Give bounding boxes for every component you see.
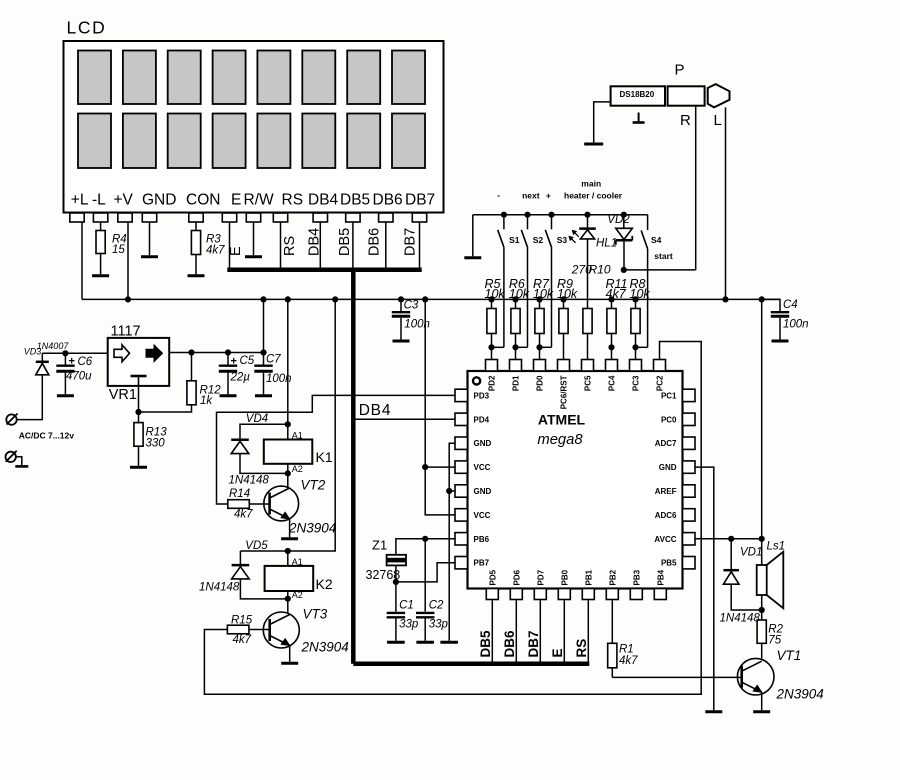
svg-text:DB4: DB4 <box>359 402 392 419</box>
svg-text:AREF: AREF <box>655 487 677 496</box>
wire R1 to VT1 base <box>612 676 741 678</box>
node C7/VCC link <box>260 349 266 355</box>
connector P box <box>668 86 705 105</box>
svg-text:PB0: PB0 <box>561 569 570 585</box>
svg-text:VD4: VD4 <box>246 413 268 425</box>
ground under C3 <box>393 340 410 343</box>
switch S1 <box>501 212 507 218</box>
LCD module outline <box>64 41 444 213</box>
svg-text:PC6/RST: PC6/RST <box>560 375 569 409</box>
MCU bottom pin stubs <box>486 589 498 600</box>
svg-text:C4: C4 <box>783 299 798 311</box>
svg-text:RS: RS <box>574 639 589 658</box>
svg-text:C1: C1 <box>399 600 414 612</box>
svg-text:DB4: DB4 <box>308 192 339 209</box>
sensor DS18B20 box <box>611 86 665 105</box>
ground MCU GND <box>440 641 458 644</box>
svg-text:4k7: 4k7 <box>206 245 225 257</box>
resistor R14 <box>228 500 250 509</box>
svg-text:Ls1: Ls1 <box>767 540 786 552</box>
MCU left pin stubs <box>455 389 468 401</box>
transistor VT2 <box>264 486 299 521</box>
wire LCD E to bus <box>229 222 231 268</box>
svg-text:GND: GND <box>142 192 176 209</box>
svg-text:1117: 1117 <box>111 324 141 340</box>
capacitor C2 <box>424 539 426 612</box>
resistor R15 <box>227 625 249 634</box>
ground VT2 emitter <box>281 537 298 540</box>
svg-text:RS: RS <box>282 236 298 256</box>
node A2 K2 <box>285 596 291 602</box>
resistor R8 <box>635 299 637 308</box>
diode VD1 <box>730 539 732 570</box>
LED HL1 arrows <box>573 231 579 237</box>
svg-text:DB6: DB6 <box>373 192 403 209</box>
svg-text:+L: +L <box>71 192 89 209</box>
svg-text:VD2: VD2 <box>607 214 630 226</box>
svg-text:VR1: VR1 <box>109 387 137 403</box>
svg-text:+: + <box>69 356 75 368</box>
VCC rail horizontal <box>82 298 780 300</box>
svg-text:GND: GND <box>474 439 492 448</box>
wire VT3 emitter to ground <box>289 646 291 662</box>
resistor R7 <box>539 299 541 308</box>
ground under C2 <box>416 641 434 644</box>
wire A1 to K2 <box>287 551 289 566</box>
node C5 top <box>225 349 231 355</box>
svg-text:10k: 10k <box>533 287 554 301</box>
svg-text:1N4148: 1N4148 <box>229 475 270 487</box>
wire bus tap DB6 <box>515 600 517 662</box>
svg-text:S4: S4 <box>651 235 662 245</box>
wire MCU GND pins to ground <box>449 443 455 641</box>
diode VD3 <box>36 361 49 364</box>
svg-text:330: 330 <box>146 438 166 450</box>
svg-text:GND: GND <box>659 463 677 472</box>
svg-text:PC1: PC1 <box>661 391 677 400</box>
diode VD5 flyback <box>239 551 241 565</box>
svg-text:R1: R1 <box>619 644 634 656</box>
VR1 input arrow (open) <box>114 345 130 362</box>
capacitor C7 <box>254 365 272 367</box>
ground under R13 <box>130 466 147 469</box>
svg-text:DB7: DB7 <box>526 630 541 657</box>
svg-text:PB5: PB5 <box>661 559 677 568</box>
svg-text:PB3: PB3 <box>633 569 642 585</box>
svg-text:C7: C7 <box>266 354 281 366</box>
svg-text:470u: 470u <box>66 371 92 383</box>
relay K1 box <box>264 440 313 464</box>
svg-text:4k7: 4k7 <box>233 634 252 646</box>
speaker Ls1 <box>761 539 763 565</box>
svg-text:DB7: DB7 <box>405 192 435 209</box>
regulator VR1 box <box>108 338 170 386</box>
case ground symbol <box>638 113 640 123</box>
wire PD3 to R14 (K1 drive) <box>217 395 456 504</box>
svg-text:10k: 10k <box>485 287 506 301</box>
svg-text:10k: 10k <box>509 287 530 301</box>
svg-text:P: P <box>675 62 685 79</box>
ground under C6 <box>57 394 74 397</box>
svg-text:next: next <box>522 191 540 201</box>
svg-text:PB1: PB1 <box>585 569 594 585</box>
svg-text:DB6: DB6 <box>366 228 382 256</box>
pin1 marker <box>473 377 480 384</box>
svg-text:R10: R10 <box>589 263 611 277</box>
wire DS18B20 to ground <box>594 102 611 143</box>
svg-text:Z1: Z1 <box>372 538 387 553</box>
svg-text:PD2: PD2 <box>488 375 497 391</box>
wire VCC rail to K1 A1 <box>287 299 289 439</box>
wire K2 A2 to VT3 collector <box>287 591 289 614</box>
svg-text:PD0: PD0 <box>536 375 545 391</box>
transistor VT1 <box>737 658 774 695</box>
svg-text:PB7: PB7 <box>474 559 490 568</box>
bus thick horizontal bottom <box>353 661 589 666</box>
wire LCD DB4 to bus <box>319 222 321 268</box>
svg-text:+V: +V <box>114 192 134 209</box>
ground under C5 <box>220 394 237 397</box>
capacitor C4 <box>762 299 780 311</box>
ground VT1 emitter <box>753 710 770 713</box>
ground DS18B20 <box>584 143 603 146</box>
svg-text:R: R <box>680 112 691 129</box>
wire DB4 tap to PD4 <box>356 418 456 420</box>
MCU top pin stubs <box>486 360 498 372</box>
ground VT3 emitter <box>281 662 298 665</box>
svg-text:75: 75 <box>768 635 781 647</box>
switch S3 <box>548 212 554 218</box>
bus thick vertical <box>351 270 356 664</box>
input terminal X1 <box>6 414 16 424</box>
svg-text:DB4: DB4 <box>307 228 323 256</box>
svg-text:PD4: PD4 <box>474 415 490 424</box>
svg-text:PB2: PB2 <box>609 569 618 585</box>
resistor R10 <box>583 309 592 334</box>
svg-text:+: + <box>546 191 551 201</box>
svg-text:1k: 1k <box>200 395 213 407</box>
node adj <box>135 409 141 415</box>
wire adj to R12 bottom <box>139 405 192 412</box>
svg-text:PD3: PD3 <box>474 391 490 400</box>
svg-text:K1: K1 <box>316 449 333 465</box>
svg-text:PD6: PD6 <box>513 569 522 585</box>
wire VCC rail to C7 <box>263 299 265 364</box>
svg-text:E: E <box>231 192 241 209</box>
plug symbol <box>708 84 730 107</box>
svg-text:DB7: DB7 <box>403 228 419 256</box>
svg-text:2N3904: 2N3904 <box>288 521 336 536</box>
svg-text:A2: A2 <box>292 464 303 474</box>
wire VR1 output <box>169 352 263 354</box>
wire bus tap DB7 <box>539 600 541 662</box>
wire LCD DB5 to bus <box>352 222 354 268</box>
wire VCC line down to AVCC <box>761 299 763 538</box>
svg-text:CON: CON <box>186 192 220 209</box>
svg-text:2N3904: 2N3904 <box>776 687 824 702</box>
capacitor C1 <box>395 582 397 612</box>
wire MCU GND right to ground <box>695 467 714 710</box>
svg-text:S3: S3 <box>557 235 568 245</box>
svg-text:AVCC: AVCC <box>654 535 676 544</box>
wire PC2 route to R15 (K2 drive) <box>204 342 701 695</box>
svg-text:PB6: PB6 <box>474 535 490 544</box>
resistor R4 <box>100 222 102 231</box>
capacitor C3 <box>400 299 402 311</box>
svg-text:4k7: 4k7 <box>606 287 627 301</box>
wire P-R down to start node <box>695 106 697 270</box>
input terminal X2 <box>6 452 16 462</box>
svg-text:AC/DC 7...12v: AC/DC 7...12v <box>19 431 75 441</box>
svg-text:10k: 10k <box>630 287 651 301</box>
resistor R13 <box>138 412 140 423</box>
crystal Z1 wiring PB6 <box>396 539 455 555</box>
capacitor C5 <box>227 353 229 365</box>
wire VT1 emitter to ground <box>761 692 763 710</box>
svg-text:PD5: PD5 <box>489 569 498 585</box>
svg-text:PD1: PD1 <box>512 375 521 391</box>
svg-text:10k: 10k <box>557 287 578 301</box>
node A1 K2 <box>285 548 291 554</box>
svg-text:VD5: VD5 <box>245 540 268 552</box>
resistor R9 <box>563 299 565 308</box>
resistor R2 <box>761 610 763 620</box>
button ground rail <box>473 214 648 216</box>
MCU right pin stubs <box>683 389 696 401</box>
junction dots below resistors <box>488 344 494 350</box>
ground left of rail <box>472 215 474 257</box>
svg-text:-: - <box>497 190 500 200</box>
wire AVCC <box>695 538 762 540</box>
ground at X2 <box>16 457 22 466</box>
svg-text:C3: C3 <box>404 299 419 311</box>
LED HL1 <box>584 212 590 218</box>
svg-text:100n: 100n <box>404 319 430 331</box>
svg-text:2N3904: 2N3904 <box>301 640 349 655</box>
wire start node to P-R <box>624 269 696 271</box>
svg-text:PC4: PC4 <box>608 375 617 391</box>
svg-text:RS: RS <box>282 192 304 209</box>
node A2 K1 <box>285 470 291 476</box>
svg-text:ADC6: ADC6 <box>655 511 677 520</box>
svg-text:22µ: 22µ <box>230 372 251 384</box>
svg-text:PC5: PC5 <box>584 375 593 391</box>
wire plug L down to VCC rail <box>725 107 727 299</box>
svg-text:4k7: 4k7 <box>234 509 253 521</box>
svg-text:PC2: PC2 <box>656 375 665 391</box>
wire VR1 adj down <box>138 386 140 412</box>
node R12 top <box>188 349 194 355</box>
svg-text:ATMEL: ATMEL <box>538 412 586 428</box>
switch S2 <box>524 212 530 218</box>
svg-text:+: + <box>231 356 237 368</box>
wire input to VD3 <box>17 376 43 420</box>
svg-text:E: E <box>228 246 244 256</box>
resistor R3 <box>195 222 197 231</box>
svg-text:HL1: HL1 <box>596 237 617 249</box>
ground under C1 <box>387 641 405 644</box>
wire LCD +L to VCC rail <box>81 222 83 299</box>
ground under C7 <box>255 394 272 397</box>
svg-text:C2: C2 <box>429 600 444 612</box>
svg-text:K2: K2 <box>316 576 333 592</box>
LCD character cells <box>78 51 111 105</box>
svg-text:DB5: DB5 <box>478 630 493 657</box>
svg-text:VCC: VCC <box>474 511 491 520</box>
node Z1 bottom <box>393 579 399 585</box>
wire VT2 emitter to ground <box>289 519 291 537</box>
ground LCD GND pin <box>149 222 151 255</box>
svg-text:PC3: PC3 <box>632 375 641 391</box>
svg-text:PB4: PB4 <box>657 569 666 585</box>
node C6 top <box>62 350 68 356</box>
wire Z1 bottom to PB7 <box>396 563 455 582</box>
svg-text:LCD: LCD <box>67 18 107 38</box>
svg-text:1N4148: 1N4148 <box>720 613 761 625</box>
svg-text:main: main <box>581 179 601 189</box>
node VD2 / start line <box>621 267 627 273</box>
svg-text:S1: S1 <box>509 235 520 245</box>
wire VCC rail to K2 A1 <box>240 299 335 551</box>
svg-text:VT2: VT2 <box>301 478 326 493</box>
ground under R4 <box>92 274 109 277</box>
transistor VT3 <box>263 612 299 648</box>
svg-text:GND: GND <box>474 487 492 496</box>
svg-text:mega8: mega8 <box>537 432 583 448</box>
svg-text:VD1: VD1 <box>740 546 762 558</box>
svg-text:DS18B20: DS18B20 <box>620 90 655 99</box>
wire K1 A2 to VT2 collector <box>287 464 289 487</box>
ground under R3 <box>188 274 205 277</box>
resistor R11 <box>611 299 613 308</box>
switch S4 <box>647 215 649 230</box>
wire LCD +V to VCC rail <box>127 222 129 299</box>
wire VD3 to VR1 input <box>42 352 107 354</box>
ground LCD R/W pin <box>253 222 255 255</box>
LCD pin stubs <box>70 213 84 222</box>
svg-text:C5: C5 <box>240 355 255 367</box>
svg-text:4k7: 4k7 <box>619 655 638 667</box>
svg-text:VT1: VT1 <box>777 648 802 663</box>
svg-text:DB5: DB5 <box>340 192 370 209</box>
svg-text:33p: 33p <box>399 618 419 630</box>
svg-text:VCC: VCC <box>474 463 491 472</box>
svg-text:heater / cooler: heater / cooler <box>564 191 623 201</box>
diode VD2 <box>621 212 627 218</box>
resistor R1 <box>611 600 613 644</box>
svg-text:DB5: DB5 <box>337 228 353 256</box>
ground right GND <box>705 710 722 713</box>
wire bus tap DB5 <box>491 600 493 662</box>
VR1 ground symbol inside <box>131 375 147 378</box>
svg-text:1N4148: 1N4148 <box>199 582 240 594</box>
VR1 output arrow (filled) <box>146 345 163 362</box>
svg-text:PD7: PD7 <box>537 569 546 585</box>
bus thick horizontal top <box>227 267 421 272</box>
wire VCC rail to MCU VCC pins <box>425 299 455 515</box>
svg-text:C6: C6 <box>78 356 93 368</box>
svg-text:15: 15 <box>112 244 125 256</box>
wire bus tap E <box>563 600 565 662</box>
wire LCD DB7 to bus <box>419 222 421 268</box>
capacitor C6 <box>64 353 66 364</box>
svg-text:S2: S2 <box>533 235 544 245</box>
svg-text:start: start <box>654 251 673 261</box>
resistor R5 <box>491 299 493 308</box>
svg-text:PC0: PC0 <box>661 415 677 424</box>
svg-text:E: E <box>550 648 565 657</box>
svg-text:A2: A2 <box>292 590 303 600</box>
wire bus tap RS <box>587 600 589 662</box>
svg-text:DB6: DB6 <box>502 630 517 657</box>
diode VD4 flyback <box>240 424 288 439</box>
resistor R12 <box>191 353 193 381</box>
svg-text:VT3: VT3 <box>303 607 328 622</box>
wire LCD RS to bus <box>280 222 282 268</box>
svg-text:R14: R14 <box>229 488 250 500</box>
svg-text:-L: -L <box>92 192 106 209</box>
node speaker bottom <box>759 607 765 613</box>
junction dots on VCC rail <box>125 296 131 302</box>
ground under C4 <box>772 340 789 343</box>
svg-text:33p: 33p <box>429 618 449 630</box>
crystal Z1 <box>387 555 406 566</box>
svg-text:100n: 100n <box>783 319 809 331</box>
svg-text:1N4007: 1N4007 <box>37 341 70 351</box>
wire LCD DB6 to bus <box>385 222 387 268</box>
svg-text:R15: R15 <box>231 615 253 627</box>
svg-text:L: L <box>714 112 722 129</box>
svg-text:ADC7: ADC7 <box>655 439 677 448</box>
svg-text:R/W: R/W <box>244 192 275 209</box>
resistor R6 <box>515 299 517 308</box>
relay K2 box <box>265 566 314 591</box>
node A1 K1 <box>285 421 291 427</box>
MCU mega8 box <box>468 371 683 589</box>
